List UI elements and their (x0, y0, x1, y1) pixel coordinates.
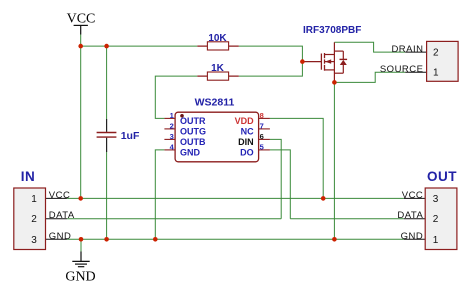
svg-text:1: 1 (31, 194, 37, 205)
svg-text:DATA: DATA (49, 210, 75, 221)
svg-text:1uF: 1uF (121, 130, 140, 142)
svg-text:DIN: DIN (238, 137, 254, 147)
svg-text:2: 2 (433, 48, 439, 59)
svg-text:GND: GND (49, 231, 72, 242)
svg-text:VCC: VCC (402, 190, 424, 201)
svg-text:5: 5 (260, 143, 264, 152)
svg-text:GND: GND (180, 147, 201, 157)
svg-text:VCC: VCC (49, 190, 71, 201)
svg-text:VCC: VCC (67, 12, 96, 27)
svg-text:IN: IN (21, 169, 36, 184)
svg-text:1K: 1K (211, 63, 225, 74)
svg-text:2: 2 (31, 214, 37, 225)
svg-text:DO: DO (240, 147, 254, 157)
svg-text:2: 2 (170, 122, 174, 131)
svg-text:1: 1 (433, 235, 439, 246)
svg-text:DRAIN: DRAIN (391, 44, 423, 55)
svg-text:OUTG: OUTG (180, 126, 206, 136)
svg-text:1: 1 (170, 111, 174, 120)
svg-text:3: 3 (170, 132, 174, 141)
svg-text:10K: 10K (208, 33, 227, 44)
svg-text:8: 8 (260, 111, 264, 120)
svg-text:NC: NC (241, 126, 254, 136)
svg-text:VDD: VDD (235, 116, 255, 126)
svg-text:GND: GND (65, 270, 95, 285)
svg-text:OUTB: OUTB (180, 137, 206, 147)
svg-text:DATA: DATA (397, 210, 423, 221)
svg-text:OUT: OUT (427, 169, 457, 184)
svg-text:3: 3 (433, 194, 439, 205)
svg-text:OUTR: OUTR (180, 116, 206, 126)
svg-text:GND: GND (401, 231, 424, 242)
svg-text:7: 7 (260, 122, 264, 131)
svg-text:6: 6 (260, 132, 264, 141)
svg-text:IRF3708PBF: IRF3708PBF (303, 25, 361, 36)
svg-text:2: 2 (433, 214, 439, 225)
svg-text:1: 1 (433, 68, 439, 79)
svg-text:SOURCE: SOURCE (380, 64, 424, 75)
svg-text:WS2811: WS2811 (195, 96, 235, 108)
svg-text:3: 3 (31, 235, 37, 246)
